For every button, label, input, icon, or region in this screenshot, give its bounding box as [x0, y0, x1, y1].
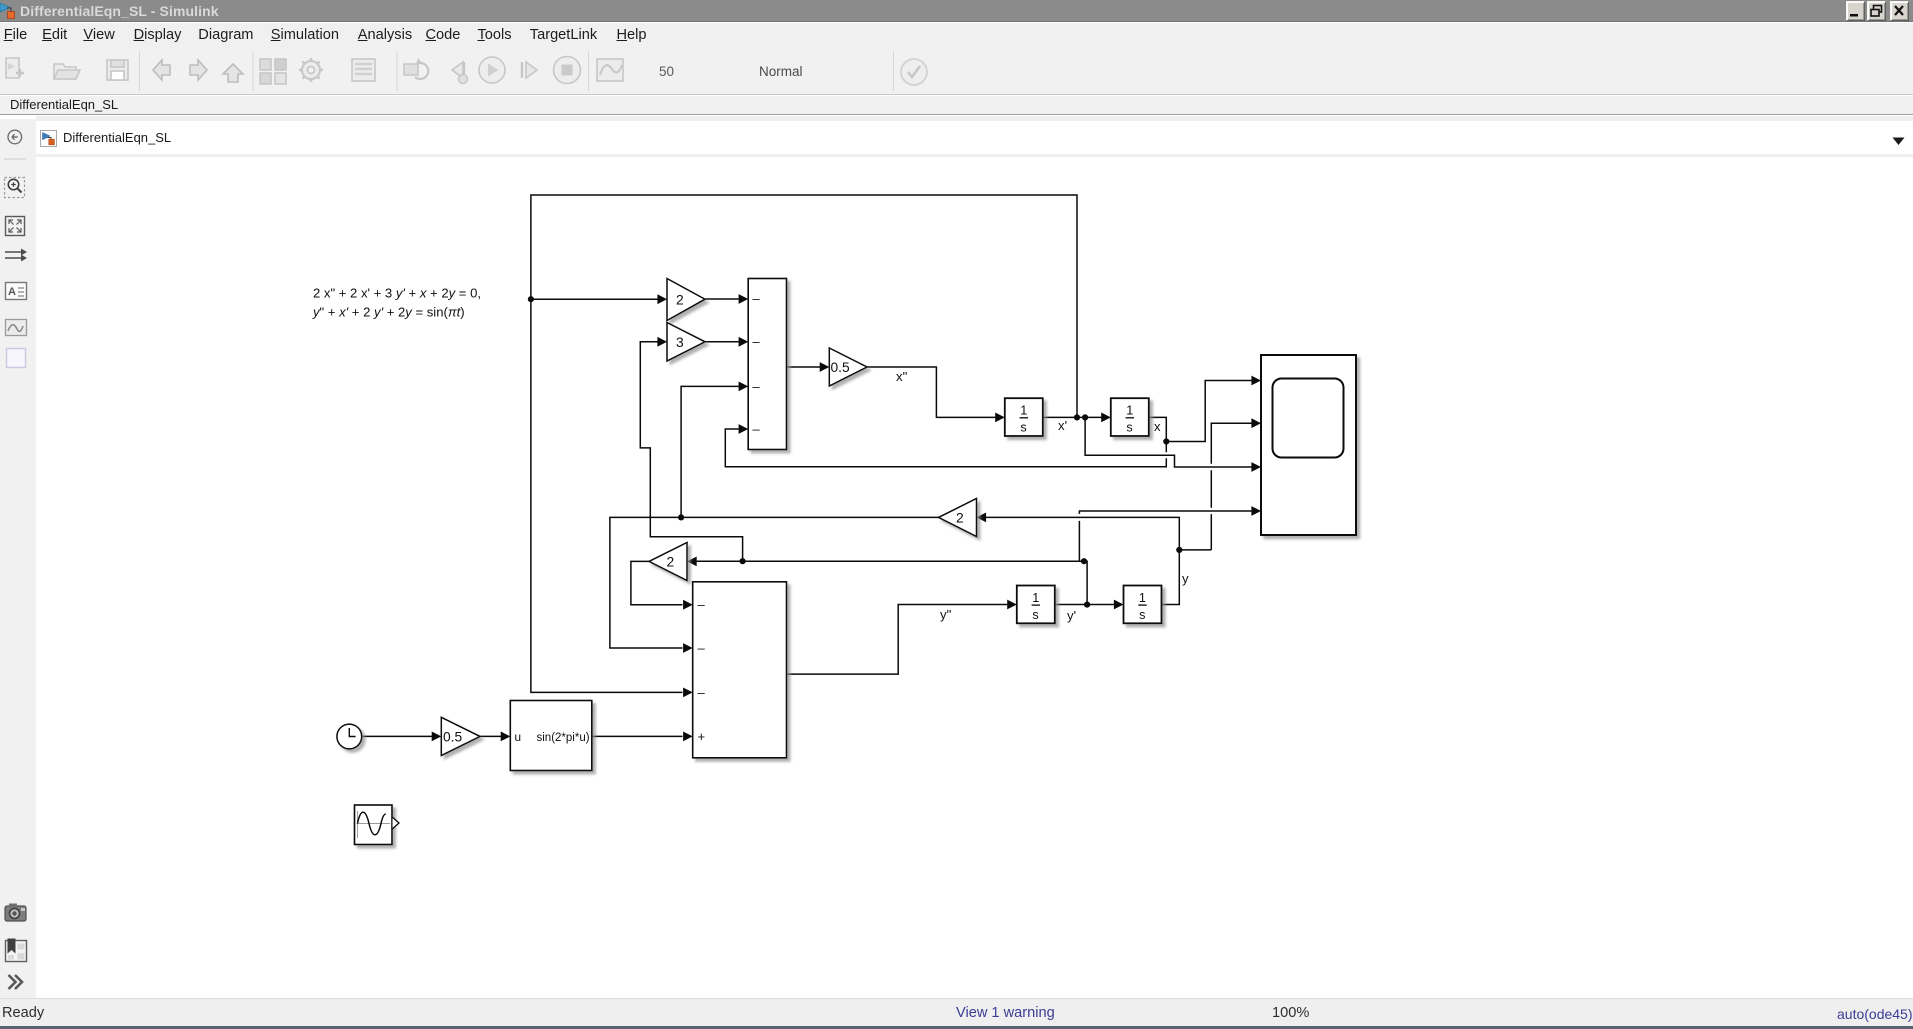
junction node on x' feedback [528, 296, 534, 302]
svg-text:y" + x' + 2 y' + 2y = sin(πt): y" + x' + 2 y' + 2y = sin(πt) [312, 305, 465, 320]
svg-text:3: 3 [676, 335, 684, 350]
wire y' up from node to y'-line [696, 561, 1087, 604]
model icon [40, 130, 57, 147]
up arrow [223, 64, 243, 82]
annotation: differential equations [312, 286, 481, 320]
wire y'' : sum2 out to integrator3 [787, 605, 1008, 675]
model explorer icon [352, 59, 375, 81]
gain G3 value 0.5 [829, 348, 867, 386]
stop icon [554, 57, 581, 84]
library browser icon [260, 59, 271, 70]
back arrow [153, 60, 170, 80]
svg-text:s: s [1032, 608, 1038, 622]
step back icon [452, 62, 463, 78]
wire sum1 out to gain G3 [787, 366, 821, 368]
svg-text:2: 2 [667, 555, 675, 570]
wire x down-left to sum1 port4 (crossover gap at x' line) [725, 429, 1166, 467]
svg-text:1: 1 [1126, 404, 1133, 418]
sum block Sum1 [748, 279, 786, 450]
wire x' : integrator1 out to integrator2 [1043, 416, 1102, 418]
minimize button [1846, 1, 1865, 21]
property inspector icon [6, 939, 27, 962]
svg-text:2: 2 [956, 511, 964, 526]
svg-text:x': x' [1058, 418, 1067, 433]
new model icon [6, 58, 19, 78]
wire y to scope port2 (crossover gaps) [1179, 423, 1251, 550]
tab bar [0, 96, 1913, 115]
run icon [479, 57, 505, 83]
gain G5 value 2 (left-pointing) [649, 543, 687, 581]
toolbar separators [140, 51, 894, 91]
wire y to gain G4 input [986, 517, 1179, 550]
forward arrow [190, 60, 207, 80]
camera icon [5, 904, 26, 922]
left palette [0, 119, 36, 998]
svg-text:2 x" + 2 x' + 3 y' + x + 2y =: 2 x" + 2 x' + 3 y' + x + 2y = 0, [313, 286, 481, 301]
update diagram icon [404, 64, 418, 75]
junction node y' [1084, 602, 1090, 608]
wire G1 out to sum1 port1 [705, 298, 739, 300]
check icon [901, 59, 927, 85]
wire 2y up to sum1 port3 [681, 386, 739, 517]
configuration gear icon [302, 61, 320, 79]
gain G1 value 2 [667, 279, 705, 321]
status bar [0, 998, 1913, 1029]
sum block Sum2 [693, 582, 787, 758]
wire x' to scope port3 [1085, 417, 1251, 467]
menu bar [0, 23, 1913, 48]
scope viewer icon [597, 59, 623, 81]
toolbar [0, 48, 1913, 95]
integrator I4 [1124, 586, 1162, 624]
svg-text:–: – [753, 291, 761, 306]
svg-text:1: 1 [1020, 404, 1027, 418]
svg-text:1: 1 [1139, 591, 1146, 605]
fit to view icon [6, 217, 25, 236]
svg-text:–: – [753, 379, 761, 394]
svg-text:y": y" [940, 607, 952, 622]
svg-text:–: – [698, 641, 706, 656]
wire sin(2*pi*u) to sum2 port4 [592, 735, 683, 737]
svg-text:x: x [1154, 419, 1161, 434]
wire y' to scope port4 (crossover gap at 2y line) [1079, 511, 1251, 561]
expand chevrons icon [9, 975, 23, 989]
wire to gain G1 input [531, 298, 658, 300]
svg-text:–: – [698, 685, 706, 700]
wire G2 out to sum1 port2 [705, 341, 739, 343]
fcn block sin(2*pi*u) [510, 701, 592, 771]
breadcrumb bar [36, 116, 1913, 154]
simulink app icon [0, 2, 17, 21]
integrator I3 [1017, 586, 1055, 624]
wire x to scope port1 [1166, 381, 1251, 442]
integrator I1 [1005, 398, 1043, 436]
title bar [0, 0, 1913, 22]
breadcrumb dropdown arrow [1892, 137, 1905, 146]
wire x : integrator2 out down to node [1149, 417, 1167, 441]
svg-text:x": x" [896, 369, 908, 384]
wire y' : integrator3 out to integrator4 [1055, 604, 1114, 606]
clock block [337, 724, 362, 749]
wire G6 out to fcn [480, 735, 501, 737]
step forward icon [521, 62, 523, 78]
annotation icon [6, 283, 27, 300]
svg-text:2: 2 [676, 293, 684, 308]
svg-text:sin(2*pi*u): sin(2*pi*u) [537, 732, 590, 744]
wire 2y' : G5 out to sum2 port1 [631, 561, 683, 604]
gain G2 value 3 [667, 323, 705, 362]
junction node y [1176, 547, 1182, 553]
svg-text:–: – [753, 421, 761, 436]
viewmark square icon [7, 349, 26, 368]
svg-text:+: + [698, 729, 706, 744]
junction node x' branch 1 [1074, 414, 1080, 420]
wire x'' : G3 out to integrator1 [867, 367, 996, 417]
svg-text:0.5: 0.5 [443, 730, 463, 745]
gain G4 value 2 (left-pointing) [939, 499, 977, 537]
svg-text:y: y [1182, 571, 1189, 586]
image icon [6, 320, 27, 336]
open folder icon [54, 64, 76, 79]
sine wave block [355, 805, 400, 845]
svg-text:–: – [753, 334, 761, 349]
svg-text:s: s [1126, 421, 1132, 435]
svg-text:1: 1 [1032, 591, 1039, 605]
junction node y' upper [1081, 558, 1087, 564]
signal arrows icon [5, 249, 27, 262]
wire y : integrator4 out up to node [1162, 550, 1180, 605]
svg-text:–: – [698, 597, 706, 612]
close button [1890, 1, 1909, 21]
svg-text:s: s [1139, 608, 1145, 622]
wire clock to gain G6 [362, 735, 432, 737]
junction node 2y [678, 514, 684, 520]
gain G6 value 0.5 [441, 717, 480, 755]
junction node on y' line at gain G2 branch [740, 558, 746, 564]
wire 2y : G4 out left-down to sum2 port2 [610, 517, 939, 648]
back navigation icon [8, 130, 22, 144]
zoom tool icon [5, 178, 25, 198]
integrator I2 [1111, 398, 1149, 436]
junction node x [1163, 438, 1169, 444]
svg-text:y': y' [1067, 608, 1076, 623]
save icon [107, 60, 128, 80]
svg-text:s: s [1020, 421, 1026, 435]
wire x' feedback: integrator1 out up-over-down to sum2 port3 [531, 195, 1077, 692]
scope block [1261, 355, 1356, 535]
svg-text:0.5: 0.5 [831, 360, 851, 375]
restore button [1867, 1, 1886, 21]
svg-text:u: u [515, 730, 522, 744]
wire y' to gain G2 input [640, 342, 742, 561]
junction node x' branch 2 [1082, 414, 1088, 420]
